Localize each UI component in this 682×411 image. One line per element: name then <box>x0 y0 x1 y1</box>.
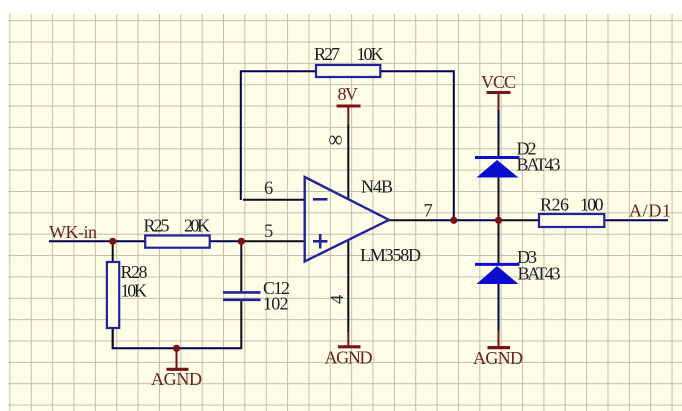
svg-text:AGND: AGND <box>473 348 523 368</box>
svg-text:BAT43: BAT43 <box>518 264 561 284</box>
svg-text:4: 4 <box>328 295 348 304</box>
svg-text:N4B: N4B <box>361 177 393 197</box>
svg-text:102: 102 <box>263 294 289 314</box>
svg-text:10K: 10K <box>357 44 384 64</box>
svg-text:5: 5 <box>264 222 273 242</box>
svg-text:AGND: AGND <box>151 369 202 389</box>
svg-text:AGND: AGND <box>325 348 373 368</box>
svg-text:20K: 20K <box>184 216 210 236</box>
svg-text:100: 100 <box>580 195 604 215</box>
svg-text:R25: R25 <box>144 216 170 236</box>
svg-text:WK-in: WK-in <box>49 222 97 242</box>
svg-text:R27: R27 <box>314 44 340 64</box>
svg-text:6: 6 <box>264 179 273 199</box>
svg-text:VCC: VCC <box>481 72 516 92</box>
svg-text:R26: R26 <box>540 195 569 215</box>
svg-text:A/D1: A/D1 <box>629 201 671 221</box>
svg-text:∞: ∞ <box>329 127 343 153</box>
svg-text:R28: R28 <box>121 262 148 282</box>
svg-text:10K: 10K <box>121 281 148 301</box>
svg-text:7: 7 <box>424 202 433 222</box>
svg-text:8V: 8V <box>338 84 359 104</box>
svg-text:BAT43: BAT43 <box>517 155 561 175</box>
svg-text:LM358D: LM358D <box>360 245 421 265</box>
